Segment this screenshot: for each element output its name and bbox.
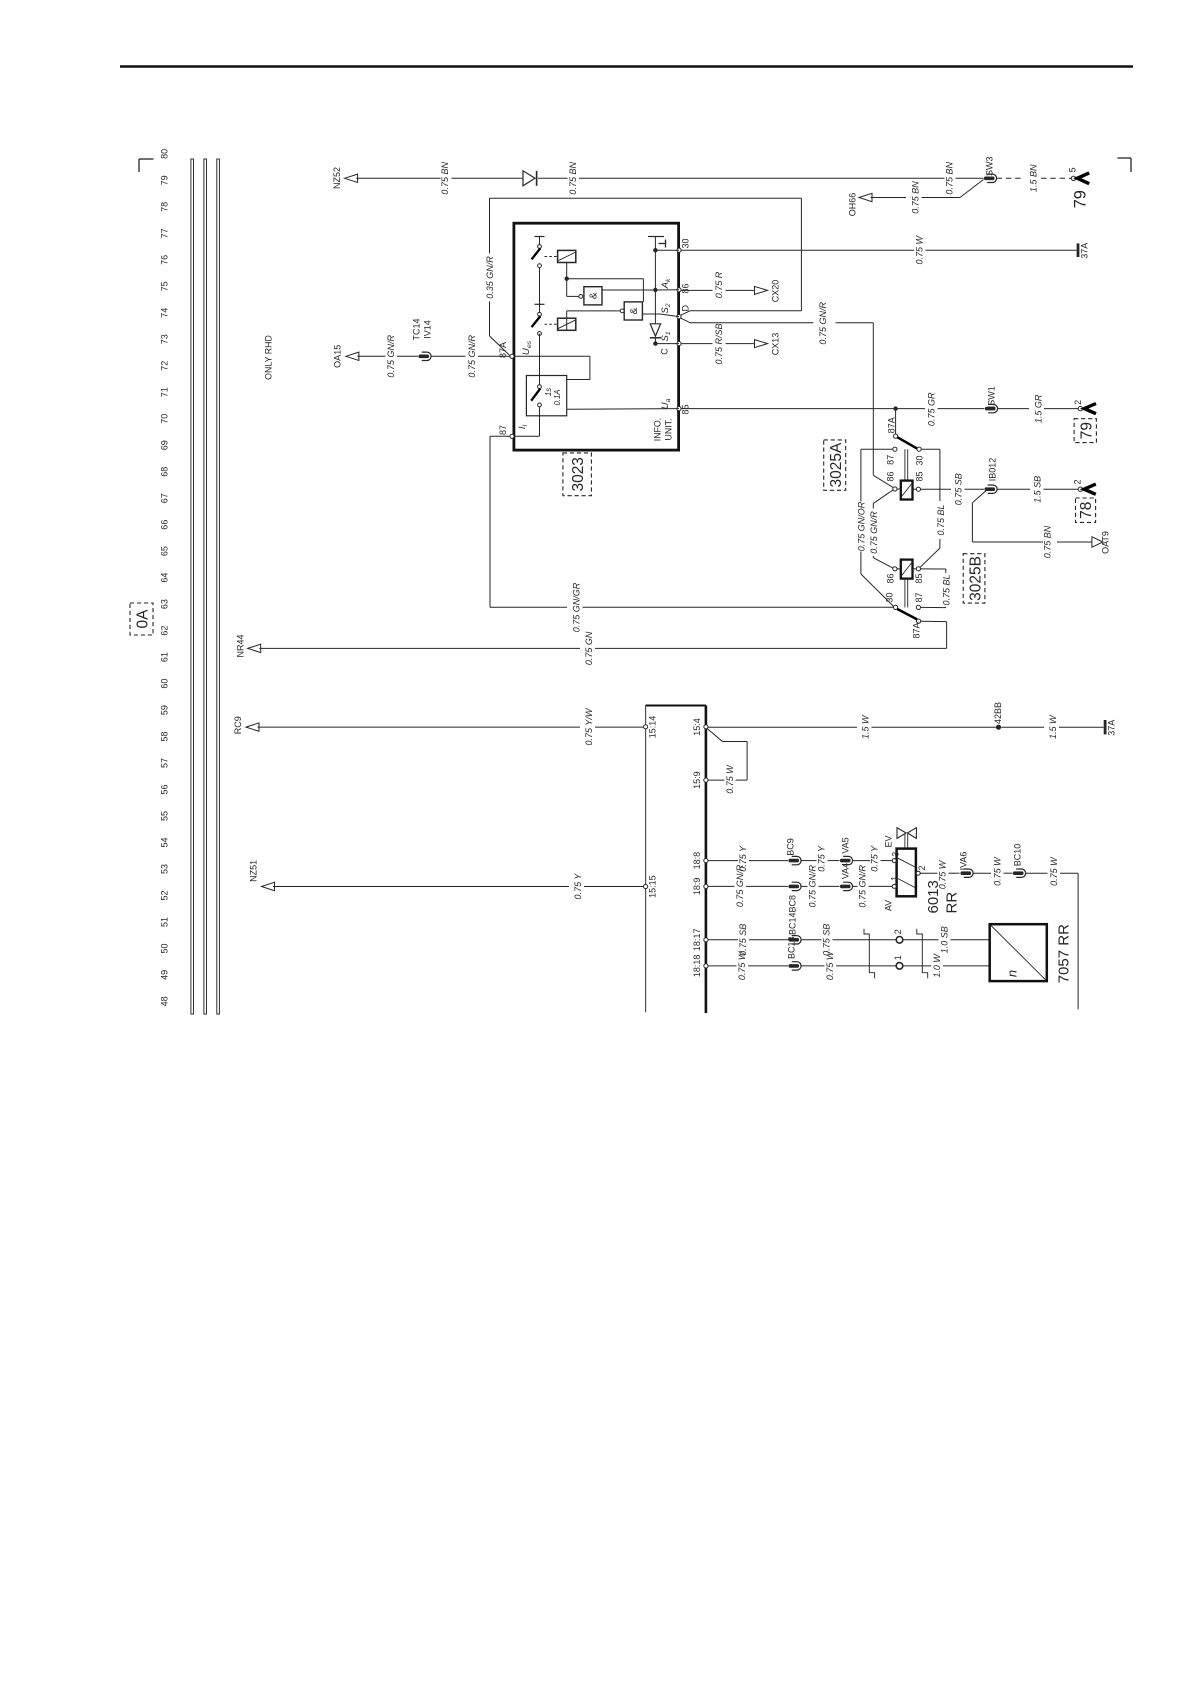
svg-text:87A: 87A xyxy=(498,342,508,358)
svg-text:3: 3 xyxy=(891,852,901,857)
svg-text:85: 85 xyxy=(915,471,925,481)
svg-text:1.5 SB: 1.5 SB xyxy=(1033,476,1043,503)
svg-text:30: 30 xyxy=(885,592,895,602)
svg-text:0.75 GN/GR: 0.75 GN/GR xyxy=(572,582,582,632)
svg-text:CX20: CX20 xyxy=(771,280,781,303)
svg-text:64: 64 xyxy=(159,573,169,583)
svg-text:80: 80 xyxy=(159,149,169,159)
svg-text:1.5 GR: 1.5 GR xyxy=(1034,394,1044,423)
svg-text:66: 66 xyxy=(159,520,169,530)
svg-text:UNIT.: UNIT. xyxy=(664,419,674,441)
svg-text:1.5 W: 1.5 W xyxy=(861,714,871,739)
svg-text:1.0 W: 1.0 W xyxy=(932,953,942,978)
svg-text:IB012: IB012 xyxy=(988,458,998,482)
svg-text:&: & xyxy=(629,307,640,314)
svg-text:75: 75 xyxy=(159,281,169,291)
svg-text:58: 58 xyxy=(159,732,169,742)
svg-text:2: 2 xyxy=(1073,400,1083,405)
svg-text:0.75 BN: 0.75 BN xyxy=(568,162,578,195)
svg-text:3025B: 3025B xyxy=(968,556,985,601)
svg-text:85: 85 xyxy=(681,404,691,414)
svg-text:OAT9: OAT9 xyxy=(1101,531,1111,554)
svg-text:BC13: BC13 xyxy=(787,936,797,959)
svg-text:63: 63 xyxy=(159,599,169,609)
svg-text:0.75 GN/OR: 0.75 GN/OR xyxy=(857,501,867,551)
svg-text:0.75 GN: 0.75 GN xyxy=(584,631,594,665)
svg-text:76: 76 xyxy=(159,255,169,265)
svg-text:0.75 GN/R: 0.75 GN/R xyxy=(735,864,745,907)
svg-text:1s: 1s xyxy=(544,388,553,396)
svg-text:0.75 W: 0.75 W xyxy=(825,950,835,980)
svg-text:0.75 Y/W: 0.75 Y/W xyxy=(584,707,594,745)
svg-text:53: 53 xyxy=(159,864,169,874)
svg-text:0.75 W: 0.75 W xyxy=(1049,856,1059,886)
svg-text:50: 50 xyxy=(159,943,169,953)
svg-text:0.75 SB: 0.75 SB xyxy=(954,473,964,505)
svg-text:0.75 BL: 0.75 BL xyxy=(936,504,946,535)
svg-text:30: 30 xyxy=(915,455,925,465)
svg-text:56: 56 xyxy=(159,785,169,795)
svg-text:54: 54 xyxy=(159,837,169,847)
svg-text:0.75 BN: 0.75 BN xyxy=(945,162,955,195)
svg-text:OH66: OH66 xyxy=(848,193,858,217)
svg-text:3025A: 3025A xyxy=(828,442,845,487)
svg-text:87: 87 xyxy=(914,592,924,602)
svg-text:59: 59 xyxy=(159,705,169,715)
svg-text:87A: 87A xyxy=(887,417,897,433)
svg-text:0.75 BN: 0.75 BN xyxy=(440,162,450,195)
svg-text:0.75 R: 0.75 R xyxy=(714,271,724,298)
svg-text:60: 60 xyxy=(159,679,169,689)
svg-text:RC9: RC9 xyxy=(233,716,243,734)
svg-text:0.75 GR: 0.75 GR xyxy=(927,392,937,426)
svg-text:0.75 Y: 0.75 Y xyxy=(817,845,827,872)
svg-text:NZ51: NZ51 xyxy=(249,860,259,882)
svg-text:ISW3: ISW3 xyxy=(985,156,995,178)
svg-text:2: 2 xyxy=(1073,479,1083,484)
svg-text:IV14: IV14 xyxy=(423,320,433,339)
svg-text:15:9: 15:9 xyxy=(692,771,702,789)
svg-text:70: 70 xyxy=(159,414,169,424)
svg-text:1.5 W: 1.5 W xyxy=(1048,714,1058,739)
svg-text:0.75 GN/R: 0.75 GN/R xyxy=(467,335,477,378)
svg-text:0.75 GN/R: 0.75 GN/R xyxy=(858,865,868,908)
svg-text:0.75 BL: 0.75 BL xyxy=(941,574,951,605)
svg-text:BC14BC8: BC14BC8 xyxy=(788,895,798,935)
svg-text:48: 48 xyxy=(159,996,169,1006)
svg-text:42BB: 42BB xyxy=(993,702,1003,724)
svg-text:87: 87 xyxy=(886,455,896,465)
svg-text:OA15: OA15 xyxy=(333,345,343,368)
svg-text:D: D xyxy=(681,305,691,312)
svg-text:78: 78 xyxy=(1078,502,1095,519)
svg-text:87: 87 xyxy=(498,425,508,435)
svg-text:79: 79 xyxy=(1079,422,1096,439)
svg-text:15:15: 15:15 xyxy=(648,875,658,898)
svg-text:0.75 W: 0.75 W xyxy=(725,764,735,794)
svg-text:69: 69 xyxy=(159,440,169,450)
svg-text:0.75 SB: 0.75 SB xyxy=(822,924,832,956)
svg-text:VA4: VA4 xyxy=(841,863,851,879)
svg-text:18:9: 18:9 xyxy=(692,878,702,896)
svg-text:0.75 R/SB: 0.75 R/SB xyxy=(714,323,724,364)
svg-text:1: 1 xyxy=(893,955,903,960)
svg-text:0.75 Y: 0.75 Y xyxy=(870,845,880,872)
svg-text:71: 71 xyxy=(159,387,169,397)
svg-text:15:4: 15:4 xyxy=(692,718,702,736)
svg-text:79: 79 xyxy=(159,175,169,185)
svg-text:0A: 0A xyxy=(135,609,152,629)
svg-text:30: 30 xyxy=(681,238,691,248)
svg-text:0.75 W: 0.75 W xyxy=(993,856,1003,886)
svg-text:18:17: 18:17 xyxy=(692,929,702,952)
svg-text:0.75 GN/R: 0.75 GN/R xyxy=(386,335,396,378)
svg-text:15:14: 15:14 xyxy=(648,716,658,739)
svg-text:0.35 GN/R: 0.35 GN/R xyxy=(485,256,495,299)
svg-text:79: 79 xyxy=(1072,190,1090,208)
svg-text:NR44: NR44 xyxy=(236,634,246,657)
svg-text:ISW1: ISW1 xyxy=(987,386,997,408)
svg-text:73: 73 xyxy=(159,334,169,344)
svg-text:86: 86 xyxy=(886,471,896,481)
svg-text:68: 68 xyxy=(159,467,169,477)
svg-text:IVA6: IVA6 xyxy=(959,852,969,871)
svg-text:0.75 W: 0.75 W xyxy=(938,859,948,889)
svg-text:RR: RR xyxy=(944,892,961,914)
svg-text:61: 61 xyxy=(159,652,169,662)
svg-text:18:8: 18:8 xyxy=(692,852,702,870)
svg-text:51: 51 xyxy=(159,917,169,927)
svg-text:0.75 GN/R: 0.75 GN/R xyxy=(818,302,828,345)
svg-text:78: 78 xyxy=(159,202,169,212)
svg-text:72: 72 xyxy=(159,361,169,371)
svg-text:INFO.: INFO. xyxy=(652,418,662,441)
svg-text:2: 2 xyxy=(917,865,927,870)
svg-text:67: 67 xyxy=(159,493,169,503)
svg-text:0.75 W: 0.75 W xyxy=(915,234,925,264)
svg-text:37A: 37A xyxy=(1107,720,1117,736)
svg-text:0.75 W: 0.75 W xyxy=(737,950,747,980)
svg-text:77: 77 xyxy=(159,228,169,238)
svg-text:18:18: 18:18 xyxy=(692,955,702,978)
svg-text:0.75 Y: 0.75 Y xyxy=(573,873,583,900)
svg-text:0.75 GN/R: 0.75 GN/R xyxy=(869,511,879,554)
svg-text:3023: 3023 xyxy=(570,457,587,491)
svg-text:86: 86 xyxy=(681,283,691,293)
svg-text:87A: 87A xyxy=(912,622,922,638)
svg-text:65: 65 xyxy=(159,546,169,556)
svg-text:7057 RR: 7057 RR xyxy=(1056,924,1073,983)
svg-text:n: n xyxy=(1005,970,1020,977)
svg-text:0.1A: 0.1A xyxy=(553,389,562,405)
svg-text:&: & xyxy=(589,292,600,299)
svg-text:BC10: BC10 xyxy=(1013,844,1023,867)
svg-text:37A: 37A xyxy=(1080,243,1090,259)
svg-text:EV: EV xyxy=(884,835,894,847)
svg-text:0.75 BN: 0.75 BN xyxy=(1043,525,1053,558)
svg-text:5: 5 xyxy=(1068,167,1078,172)
svg-text:C: C xyxy=(660,348,670,355)
svg-text:57: 57 xyxy=(159,758,169,768)
svg-text:55: 55 xyxy=(159,811,169,821)
svg-text:NZ52: NZ52 xyxy=(332,167,342,189)
svg-text:1: 1 xyxy=(890,876,900,881)
svg-text:TC14: TC14 xyxy=(412,318,422,340)
svg-text:0.75 GN/R: 0.75 GN/R xyxy=(808,864,818,907)
svg-text:0.75 SB: 0.75 SB xyxy=(738,924,748,956)
svg-text:1.5 BN: 1.5 BN xyxy=(1029,164,1039,192)
svg-text:1.0 SB: 1.0 SB xyxy=(940,926,950,953)
svg-text:62: 62 xyxy=(159,626,169,636)
svg-text:VA5: VA5 xyxy=(841,837,851,853)
svg-text:85: 85 xyxy=(914,573,924,583)
svg-text:BC9: BC9 xyxy=(786,838,796,856)
svg-text:AV: AV xyxy=(884,900,894,911)
svg-text:86: 86 xyxy=(886,573,896,583)
svg-text:2: 2 xyxy=(893,929,903,934)
svg-text:74: 74 xyxy=(159,308,169,318)
svg-text:49: 49 xyxy=(159,970,169,980)
svg-text:0.75 BN: 0.75 BN xyxy=(911,181,921,214)
svg-text:52: 52 xyxy=(159,890,169,900)
svg-text:CX13: CX13 xyxy=(771,333,781,356)
svg-text:ONLY RHD: ONLY RHD xyxy=(264,335,274,380)
